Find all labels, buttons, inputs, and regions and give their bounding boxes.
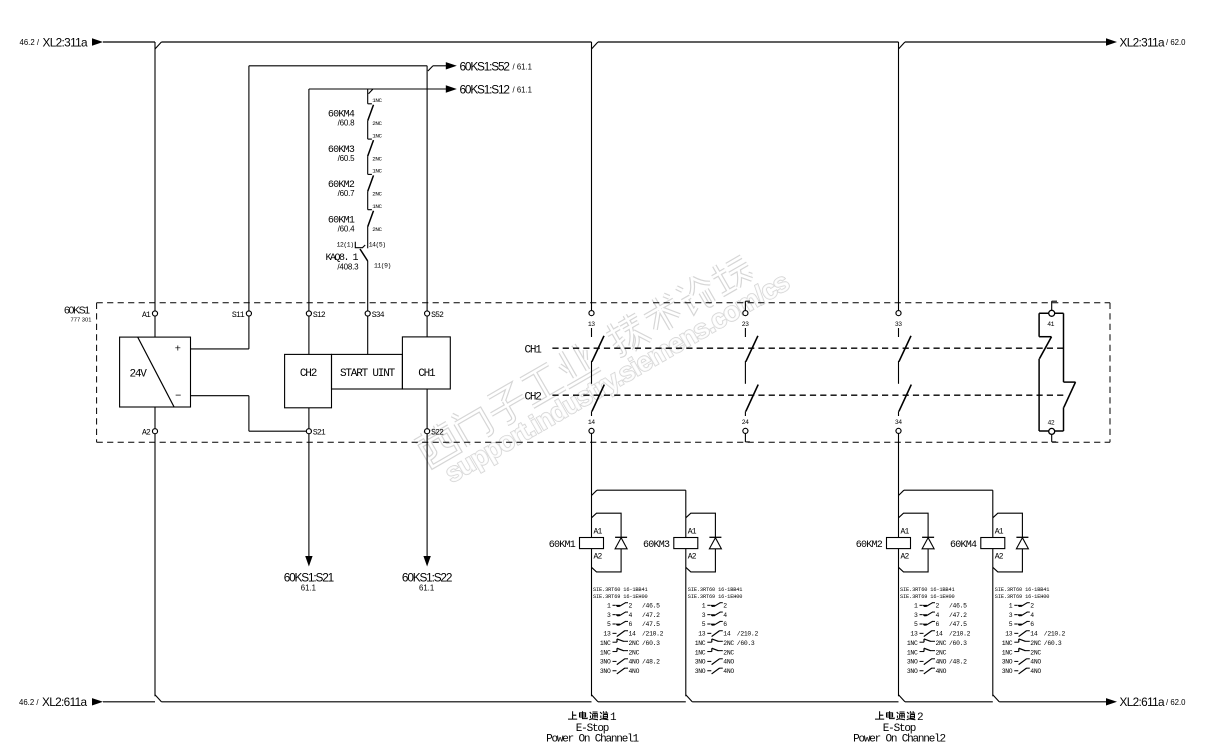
svg-text:2NC: 2NC [629,640,640,647]
svg-text:SIE.3RT69 16-1EH00: SIE.3RT69 16-1EH00 [995,594,1050,600]
svg-text:/60.4: /60.4 [338,224,356,233]
svg-text:/ 61.1: / 61.1 [513,63,533,72]
svg-text:A1: A1 [688,528,697,537]
svg-text:START UINT: START UINT [340,368,396,380]
svg-text:4NO: 4NO [1030,668,1041,675]
svg-text:4NO: 4NO [723,668,734,675]
svg-text:6: 6 [629,621,633,628]
svg-text:14: 14 [723,631,731,638]
svg-text:777 301: 777 301 [71,318,92,324]
svg-text:61.1: 61.1 [419,583,434,592]
svg-text:2NC: 2NC [936,649,947,656]
svg-text:13: 13 [603,631,611,638]
svg-text:2: 2 [723,603,727,610]
svg-text:CH1: CH1 [525,344,543,356]
svg-text:1NC: 1NC [600,649,611,656]
svg-text:5: 5 [914,621,918,628]
svg-text:A1: A1 [901,528,910,537]
svg-text:2NC: 2NC [723,649,734,656]
svg-text:6: 6 [936,621,940,628]
svg-text:SIE.3RT69 16-1EH00: SIE.3RT69 16-1EH00 [900,594,955,600]
svg-text:33: 33 [895,321,902,328]
svg-text:/60.5: /60.5 [338,154,356,163]
svg-text:2: 2 [1030,603,1034,610]
svg-text:60KS1:S52: 60KS1:S52 [460,59,510,73]
svg-text:13: 13 [1005,631,1013,638]
svg-text:2NC: 2NC [629,649,640,656]
svg-text:/60.3: /60.3 [642,640,660,647]
svg-text:Power On Channel1: Power On Channel1 [546,734,639,746]
svg-text:41: 41 [1047,321,1054,328]
svg-text:3: 3 [1009,612,1013,619]
svg-text:A2: A2 [995,552,1004,561]
svg-text:1: 1 [702,603,706,610]
svg-text:60KS1:S12: 60KS1:S12 [460,83,510,97]
svg-text:SIE.3RT69 16-1EH00: SIE.3RT69 16-1EH00 [688,594,743,600]
svg-text:14: 14 [629,631,637,638]
svg-text:/ 61.1: / 61.1 [513,86,533,95]
svg-text:4NO: 4NO [629,659,640,666]
svg-text:A2: A2 [142,429,151,438]
svg-text:/ 62.0: / 62.0 [1166,698,1186,707]
svg-text:3NO: 3NO [600,668,611,675]
svg-text:6: 6 [1030,621,1034,628]
svg-text:2NC: 2NC [723,640,734,647]
svg-text:1NC: 1NC [372,168,382,175]
svg-text:2NC: 2NC [1030,640,1041,647]
svg-text:24V: 24V [130,368,148,380]
svg-text:CH2: CH2 [300,368,317,380]
svg-text:3NO: 3NO [1002,668,1013,675]
svg-text:1: 1 [1009,603,1013,610]
svg-text:A2: A2 [594,552,603,561]
svg-text:1NC: 1NC [695,640,706,647]
svg-text:/210.2: /210.2 [737,631,759,638]
svg-text:1NC: 1NC [907,640,918,647]
svg-text:3: 3 [702,612,706,619]
svg-text:SIE.3RT69 16-1EH00: SIE.3RT69 16-1EH00 [593,594,648,600]
svg-text:S52: S52 [431,311,444,320]
svg-text:5: 5 [607,621,611,628]
svg-text:4NO: 4NO [936,668,947,675]
svg-text:/47.2: /47.2 [949,612,967,619]
svg-text:/60.8: /60.8 [338,119,356,128]
svg-text:1NC: 1NC [372,97,382,104]
svg-text:XL2:311a: XL2:311a [1120,35,1166,49]
svg-text:60KS1:S22: 60KS1:S22 [402,570,452,584]
svg-text:A1: A1 [594,528,603,537]
svg-text:23: 23 [742,321,749,328]
svg-text:4NO: 4NO [723,659,734,666]
svg-text:11(9): 11(9) [374,262,391,269]
svg-text:61.1: 61.1 [301,583,316,592]
svg-text:14: 14 [936,631,944,638]
svg-text:2NC: 2NC [1030,649,1041,656]
svg-text:4NO: 4NO [1030,659,1041,666]
svg-text:S34: S34 [372,311,385,320]
svg-text:Power On Channel2: Power On Channel2 [853,734,945,746]
svg-text:1NC: 1NC [1002,649,1013,656]
svg-text:60KM3: 60KM3 [643,540,670,551]
svg-text:1NC: 1NC [1002,640,1013,647]
svg-text:/60.3: /60.3 [949,640,967,647]
svg-text:42: 42 [1048,419,1055,426]
svg-text:XL2:611a: XL2:611a [42,695,88,709]
svg-text:13: 13 [698,631,706,638]
svg-text:4: 4 [936,612,940,619]
svg-text:1NC: 1NC [372,203,382,210]
svg-text:24: 24 [742,419,749,426]
svg-text:/46.5: /46.5 [949,603,967,610]
svg-text:5: 5 [1009,621,1013,628]
svg-text:2NC: 2NC [372,226,382,233]
svg-text:2NC: 2NC [936,640,947,647]
svg-text:/ 62.0: / 62.0 [1166,38,1186,47]
svg-text:13: 13 [910,631,918,638]
svg-text:1NC: 1NC [600,640,611,647]
svg-text:12(1): 12(1) [337,241,354,248]
svg-text:60KS1: 60KS1 [64,305,90,317]
svg-text:+: + [175,343,181,355]
svg-text:46.2 /: 46.2 / [19,698,39,707]
svg-text:46.2 /: 46.2 / [20,38,40,47]
svg-text:14: 14 [1030,631,1038,638]
svg-text:/48.2: /48.2 [949,659,967,666]
svg-text:4: 4 [723,612,727,619]
svg-text:SIE.3RT60 16-1BB41: SIE.3RT60 16-1BB41 [900,587,955,593]
svg-text:/48.2: /48.2 [642,659,660,666]
svg-text:2: 2 [936,603,940,610]
svg-text:/60.3: /60.3 [1044,640,1062,647]
svg-text:/47.5: /47.5 [642,621,660,628]
svg-text:A2: A2 [688,552,697,561]
svg-text:2NC: 2NC [372,120,382,127]
svg-text:1: 1 [607,603,611,610]
svg-text:60KM1: 60KM1 [549,540,576,551]
svg-text:A2: A2 [901,552,910,561]
svg-text:SIE.3RT60 16-1BB41: SIE.3RT60 16-1BB41 [593,587,648,593]
svg-text:/47.2: /47.2 [642,612,660,619]
svg-text:S22: S22 [431,429,444,438]
svg-text:60KM2: 60KM2 [856,540,883,551]
svg-text:3NO: 3NO [907,659,918,666]
svg-text:2NC: 2NC [372,191,382,198]
svg-text:2NC: 2NC [372,155,382,162]
svg-text:34: 34 [895,419,902,426]
svg-text:4: 4 [1030,612,1034,619]
svg-text:−: − [175,390,181,402]
svg-text:1NC: 1NC [372,132,382,139]
svg-text:1NC: 1NC [695,649,706,656]
svg-text:SIE.3RT60 16-1BB41: SIE.3RT60 16-1BB41 [688,587,743,593]
svg-text:/210.2: /210.2 [949,631,971,638]
svg-text:CH1: CH1 [418,368,436,380]
svg-text:14: 14 [588,419,595,426]
svg-text:1: 1 [914,603,918,610]
svg-text:5: 5 [702,621,706,628]
svg-text:A1: A1 [142,311,151,320]
svg-text:3NO: 3NO [1002,659,1013,666]
svg-text:4NO: 4NO [629,668,640,675]
svg-text:/408.3: /408.3 [337,262,359,271]
svg-text:2: 2 [629,603,633,610]
svg-text:60KS1:S21: 60KS1:S21 [284,570,334,584]
svg-text:/60.3: /60.3 [737,640,755,647]
svg-text:/47.5: /47.5 [949,621,967,628]
svg-text:14(5): 14(5) [369,241,386,248]
svg-text:/210.2: /210.2 [642,631,664,638]
svg-text:6: 6 [723,621,727,628]
svg-text:/210.2: /210.2 [1044,631,1066,638]
svg-text:XL2:611a: XL2:611a [1120,695,1166,709]
svg-text:3NO: 3NO [600,659,611,666]
svg-text:1NC: 1NC [907,649,918,656]
svg-text:3NO: 3NO [907,668,918,675]
svg-text:60KM4: 60KM4 [950,540,977,551]
svg-text:2: 2 [917,712,923,724]
svg-text:3NO: 3NO [695,659,706,666]
svg-text:S21: S21 [313,429,326,438]
svg-text:4: 4 [629,612,633,619]
svg-text:/60.7: /60.7 [338,189,356,198]
svg-text:3: 3 [607,612,611,619]
svg-text:3NO: 3NO [695,668,706,675]
svg-text:/46.5: /46.5 [642,603,660,610]
svg-text:A1: A1 [995,528,1004,537]
svg-text:SIE.3RT60 16-1BB41: SIE.3RT60 16-1BB41 [995,587,1050,593]
svg-text:XL2:311a: XL2:311a [43,35,89,49]
svg-text:CH2: CH2 [525,391,542,403]
svg-text:4NO: 4NO [936,659,947,666]
svg-text:S11: S11 [232,311,245,320]
svg-text:3: 3 [914,612,918,619]
svg-text:13: 13 [588,321,595,328]
svg-text:S12: S12 [313,311,326,320]
